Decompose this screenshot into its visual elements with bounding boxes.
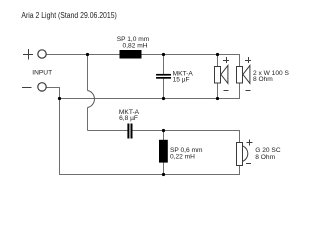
- svg-text:6,8 µF: 6,8 µF: [119, 115, 138, 122]
- svg-text:0,82 mH: 0,82 mH: [123, 43, 148, 50]
- svg-text:0,22 mH: 0,22 mH: [170, 154, 195, 161]
- svg-text:8 Ohm: 8 Ohm: [253, 76, 273, 83]
- svg-text:15 µF: 15 µF: [173, 76, 190, 83]
- svg-text:8 Ohm: 8 Ohm: [255, 154, 275, 161]
- svg-text:INPUT: INPUT: [32, 70, 52, 77]
- svg-text:Aria 2 Light (Stand 29.06.2015: Aria 2 Light (Stand 29.06.2015): [21, 11, 117, 20]
